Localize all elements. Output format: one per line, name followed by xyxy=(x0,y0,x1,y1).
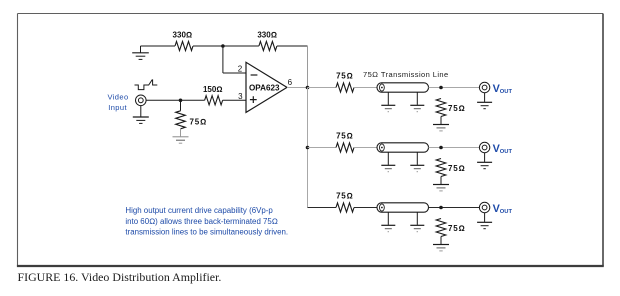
resistor R5 75ohm back-termination branch 1 xyxy=(336,83,354,92)
node output node xyxy=(306,86,310,90)
label Video Input xyxy=(107,92,128,112)
wire N1 down to inverting input xyxy=(222,46,224,73)
wire feedback left segment xyxy=(141,45,176,47)
connector J4 output BNC branch 3 xyxy=(479,202,489,212)
wire J1 ground stub xyxy=(140,106,142,117)
resistor R4 75ohm input termination xyxy=(180,100,182,111)
ground output connector branch 3 xyxy=(477,222,492,228)
ground load branch 2 xyxy=(433,185,449,191)
video signal waveform icon xyxy=(135,80,158,90)
svg-text:transmission lines to be simul: transmission lines to be simultaneously … xyxy=(125,228,288,237)
svg-text:VOUT: VOUT xyxy=(493,83,513,95)
ground load branch 3 xyxy=(433,245,449,251)
wire branch 1 to series resistor xyxy=(308,87,337,89)
resistor R9 75ohm load branch 2 xyxy=(436,159,446,177)
svg-text:75Ω: 75Ω xyxy=(448,104,465,113)
wire branch 2 line to output connector xyxy=(429,147,480,149)
wire J3 ground stub xyxy=(484,153,486,162)
ground T1 shield left xyxy=(381,105,395,111)
ground T3 shield left xyxy=(381,225,395,231)
ground G1 (feedback reference) xyxy=(132,46,149,59)
connector J3 output BNC branch 2 xyxy=(479,142,489,152)
svg-text:6: 6 xyxy=(288,78,293,87)
transmission line T3 75ohm coax xyxy=(377,203,429,212)
ground input connector xyxy=(133,117,149,123)
svg-text:75Ω Transmission Line: 75Ω Transmission Line xyxy=(363,70,449,79)
svg-text:FIGURE 16. Video Distribution: FIGURE 16. Video Distribution Amplifier. xyxy=(18,270,222,284)
svg-text:VOUT: VOUT xyxy=(493,143,513,155)
wire T1 shield stubs xyxy=(388,92,417,105)
wire R2 to right corner xyxy=(277,45,308,47)
svg-text:75Ω: 75Ω xyxy=(336,72,353,81)
resistor R8 75ohm load branch 1 xyxy=(436,99,446,117)
wire N2 to R3 xyxy=(181,99,205,101)
resistor R6 75ohm back-termination branch 2 xyxy=(336,143,354,152)
connector J1 video input BNC xyxy=(136,95,147,106)
svg-text:75Ω: 75Ω xyxy=(190,118,207,127)
resistor R10 75ohm load branch 3 xyxy=(436,219,446,237)
svg-text:High output current drive capa: High output current drive capability (6V… xyxy=(125,206,273,215)
wire output distribution bus xyxy=(307,88,309,208)
wire branch 2 resistor to line xyxy=(354,147,377,149)
wire J1 to node N2 xyxy=(146,99,180,101)
op-amp U1 OPA623 xyxy=(246,62,287,112)
svg-text:3: 3 xyxy=(238,92,243,101)
svg-text:Video: Video xyxy=(107,92,128,101)
wire R4 to ground xyxy=(180,129,182,137)
wire branch 3 to series resistor xyxy=(308,207,337,209)
ground output connector branch 2 xyxy=(477,162,492,168)
resistor R3 150ohm xyxy=(205,96,223,105)
connector J2 output BNC branch 1 xyxy=(479,82,489,92)
svg-text:Input: Input xyxy=(108,103,127,112)
wire R3 into pin 3 xyxy=(223,99,246,101)
wire branch 1 line to output connector xyxy=(429,87,480,89)
wire into pin 2 xyxy=(223,72,246,74)
wire J4 ground stub xyxy=(484,213,486,222)
wire R10 to ground xyxy=(440,237,442,245)
wire branch 3 line to output connector xyxy=(429,207,480,209)
node branch 3 load node xyxy=(439,206,443,210)
transmission line T1 75ohm coax xyxy=(377,83,429,92)
svg-text:330Ω: 330Ω xyxy=(257,31,277,40)
wire J2 ground stub xyxy=(484,93,486,102)
wire R1 to node N1 xyxy=(193,45,223,47)
node N1 feedback junction xyxy=(221,44,225,48)
wire feedback down to output xyxy=(307,46,309,88)
wire R9 to ground xyxy=(440,177,442,185)
svg-text:75Ω: 75Ω xyxy=(448,224,465,233)
note text block xyxy=(125,206,288,237)
ground T1 shield right xyxy=(410,105,424,111)
resistor R2 330ohm xyxy=(259,41,277,50)
node N2 input junction xyxy=(179,99,183,103)
svg-text:VOUT: VOUT xyxy=(493,203,513,215)
wire branch 2 to series resistor xyxy=(308,147,337,149)
transmission line T2 75ohm coax xyxy=(377,143,429,152)
wire R8 to ground xyxy=(440,117,442,125)
ground T2 shield right xyxy=(410,165,424,171)
svg-text:2: 2 xyxy=(238,65,243,74)
svg-text:OPA623: OPA623 xyxy=(249,82,280,92)
wire branch 3 resistor to line xyxy=(354,207,377,209)
node branch 2 load node xyxy=(439,146,443,150)
svg-text:75Ω: 75Ω xyxy=(336,192,353,201)
wire output pin 6 to bus xyxy=(287,87,308,89)
ground output connector branch 1 xyxy=(477,102,492,108)
node branch 1 load node xyxy=(439,86,443,90)
svg-text:75Ω: 75Ω xyxy=(448,164,465,173)
ground T2 shield left xyxy=(381,165,395,171)
node bus tap branch 2 xyxy=(306,146,310,150)
wire N1 to R2 xyxy=(223,45,259,47)
ground T3 shield right xyxy=(410,225,424,231)
ground input termination xyxy=(173,137,189,143)
svg-text:150Ω: 150Ω xyxy=(203,85,223,94)
wire branch 1 resistor to line xyxy=(354,87,377,89)
svg-text:330Ω: 330Ω xyxy=(173,31,193,40)
wire T2 shield stubs xyxy=(388,152,417,165)
svg-text:into 60Ω) allows three back-te: into 60Ω) allows three back-terminated 7… xyxy=(125,217,277,226)
resistor R7 75ohm back-termination branch 3 xyxy=(336,203,354,212)
wire T3 shield stubs xyxy=(388,212,417,225)
ground load branch 1 xyxy=(433,125,449,131)
svg-text:75Ω: 75Ω xyxy=(336,132,353,141)
resistor R1 330ohm xyxy=(175,41,193,50)
